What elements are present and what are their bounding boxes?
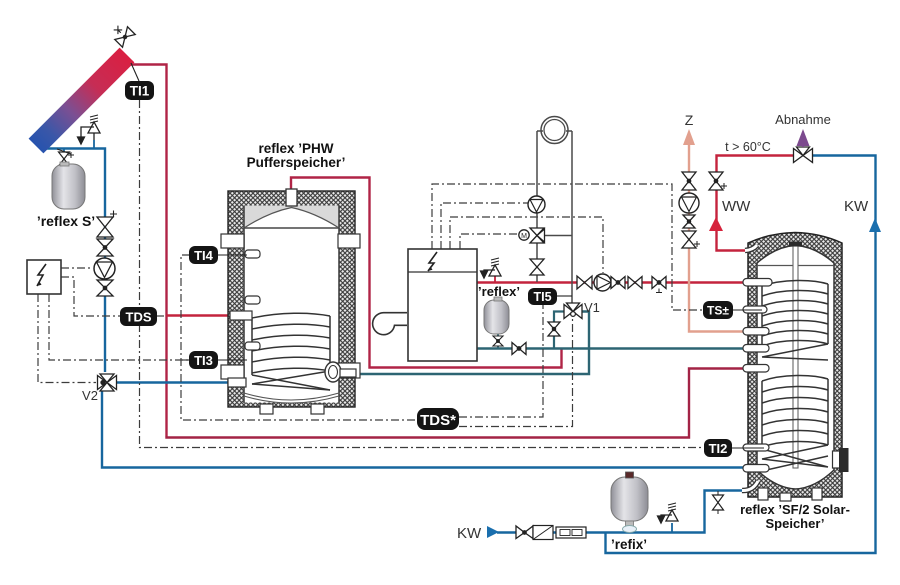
buffer tank top stub <box>286 189 297 206</box>
wire: reflex S vessel stub <box>63 149 65 153</box>
reflex expansion vessel at boiler <box>484 297 509 346</box>
wire: TI1 sensor dash line down and right to TI2 <box>140 100 706 448</box>
solar collector <box>29 21 139 153</box>
valve on WW riser <box>709 172 727 190</box>
label TI3 <box>189 351 218 369</box>
svg-text:TI3: TI3 <box>194 353 213 368</box>
TI5 connector <box>556 295 572 297</box>
wire: TDS* to TI5 dash <box>459 305 543 417</box>
TI3 connector <box>218 359 247 361</box>
wire: TI3 connector to bus <box>181 359 190 361</box>
valve with stem <box>652 277 659 289</box>
valve on Z line lower <box>682 231 700 248</box>
wire: boiler safety valve stub <box>494 276 496 282</box>
reflex S expansion vessel <box>52 162 85 209</box>
valve on V1 left branch <box>548 322 560 336</box>
drain valve under tank inlet <box>713 491 724 514</box>
valve with cap <box>97 217 113 227</box>
wire: heating return riser <box>571 131 573 304</box>
buffer coil <box>252 313 330 390</box>
svg-text:Z: Z <box>685 112 694 128</box>
solar tank lower coil <box>762 375 828 471</box>
KW inlet valve <box>516 526 533 539</box>
valve <box>628 277 635 289</box>
buffer bottom right flange oval <box>325 362 341 382</box>
svg-text:Abnahme: Abnahme <box>775 112 831 127</box>
svg-text:t > 60°C: t > 60°C <box>725 140 771 154</box>
wire: solar hot bottom bus to solar tank lower coil <box>165 369 747 438</box>
wire: V2 bottom to solar tank lower coil return <box>102 391 747 468</box>
valve <box>577 276 585 289</box>
wire: Z circulation line <box>689 143 747 332</box>
wire: boiler bus to mixing valve motor <box>460 234 518 249</box>
svg-text:V1: V1 <box>584 300 600 315</box>
Abnahme arrow purple <box>802 140 804 147</box>
WW flow arrow <box>709 217 723 231</box>
solar tank upper coil <box>762 280 828 360</box>
wire: controller to pump dash <box>61 267 92 269</box>
wire: reflex vessel stub to return line <box>497 334 499 348</box>
mixing valve arm <box>543 235 572 237</box>
buffer feet <box>260 404 273 414</box>
wire: mixed water to KW riser top <box>606 156 876 554</box>
buffer blue inlet stub <box>228 378 246 387</box>
svg-text:TI2: TI2 <box>709 441 728 456</box>
pump P3 <box>594 274 611 291</box>
KW riser arrow <box>869 218 881 232</box>
wire: boiler bus to TS sensor <box>432 184 703 310</box>
valve below solar pump <box>97 280 113 296</box>
solar tank center pipe <box>793 246 798 468</box>
boiler U1 <box>373 249 477 361</box>
thermostatic mixing valve at top <box>794 147 813 163</box>
svg-text:’reflex’: ’reflex’ <box>478 284 520 299</box>
wire: refix vessel stub <box>629 524 631 532</box>
valve on boiler return line <box>512 343 526 355</box>
wire: solar hot pipe from collector down to buses <box>130 65 167 437</box>
svg-text:reflex ’PHW: reflex ’PHW <box>258 141 333 156</box>
V1 three-way valve <box>564 303 582 319</box>
solar tank WW stub elbow <box>745 245 757 251</box>
wire: buffer bottom flange to V1 right port <box>349 312 589 375</box>
svg-text:KW: KW <box>457 525 482 542</box>
wire: controller to TDS sensor dash <box>61 277 121 316</box>
buffer flange lugs <box>221 234 244 248</box>
svg-text:TDS*: TDS* <box>420 412 456 429</box>
wire: boiler bus to loading pump <box>450 217 603 273</box>
wire: refix safety valve stub <box>671 523 673 532</box>
check valve on Z line <box>683 215 695 228</box>
wire: collector cold return pipe down to pump column <box>41 149 105 373</box>
wire: V1 left port branch with valve into return line <box>554 312 564 349</box>
sensor connector lines <box>218 255 764 448</box>
wire: TDS* to V1 dash <box>459 319 573 427</box>
sensor line to TI1 <box>131 63 139 81</box>
reflex S vessel connection valve <box>57 149 74 166</box>
wire: heating supply riser <box>536 131 538 282</box>
V2 three-way valve <box>98 374 117 391</box>
Z circulation arrow <box>683 129 695 145</box>
solar pump P1 <box>94 258 115 279</box>
svg-text:V2: V2 <box>82 388 98 403</box>
wire: controller to V2 dash <box>38 294 96 383</box>
collector air vent valve <box>109 21 135 47</box>
label TI1 <box>125 81 154 100</box>
solar tank reflex SF/2 Solar-Speicher <box>742 233 849 502</box>
svg-text:KW: KW <box>844 198 869 215</box>
wire: boiler return teal line to solar tank upper coil bottom <box>477 347 747 349</box>
safety valve group at collector return <box>78 115 101 144</box>
svg-text:TI1: TI1 <box>130 84 150 99</box>
wire: boiler hot supply line to solar tank upper coil <box>477 281 747 283</box>
heating pump P2 <box>528 196 545 213</box>
TI4 connector <box>218 254 247 256</box>
label TI5 <box>528 288 557 305</box>
wire: TDS to solar pipe connector dash <box>156 315 166 317</box>
controller box <box>27 260 61 294</box>
wire: TI4 TI3 sensor bus down to TDS* <box>181 255 418 420</box>
motor mixing valve M <box>519 228 545 243</box>
circulation pump P4 <box>679 193 699 213</box>
refix safety valve group <box>658 503 679 523</box>
svg-text:WW: WW <box>722 198 751 215</box>
loading pump group on boiler supply <box>577 274 666 293</box>
svg-text:TI4: TI4 <box>194 248 214 263</box>
wire: KW inlet line to solar tank bottom <box>497 491 744 533</box>
svg-text:TS±: TS± <box>707 304 729 318</box>
label TS plusminus <box>703 301 733 319</box>
solar tank feet <box>758 488 768 500</box>
svg-text:TDS: TDS <box>126 310 152 325</box>
svg-text:M: M <box>521 233 527 240</box>
label TI2 <box>704 439 732 457</box>
wire: buffer tank top red pipe around tank to under boiler <box>291 178 562 368</box>
boiler safety valve group <box>481 258 502 278</box>
KW inlet arrow <box>487 526 499 538</box>
KW meter <box>556 527 586 538</box>
TS connector <box>732 309 762 311</box>
buffer tank reflex PHW Pufferspeicher <box>221 189 360 414</box>
wire: WW hot water riser <box>717 156 795 251</box>
wire: V2 to buffer tank bottom <box>116 381 230 383</box>
svg-text:Speicher’: Speicher’ <box>765 516 824 531</box>
solar tank connection stub pipes <box>743 279 772 473</box>
svg-text:Pufferspeicher’: Pufferspeicher’ <box>247 155 346 170</box>
svg-text:reflex ’SF/2 Solar-: reflex ’SF/2 Solar- <box>740 502 850 517</box>
wire: safety valve stub on collector return <box>93 140 95 148</box>
heating circuit risers <box>537 117 572 305</box>
boiler lightning symbol <box>428 252 437 271</box>
label TI4 <box>189 246 218 264</box>
KW filter box <box>533 526 586 540</box>
label TDS* <box>417 408 459 430</box>
valve <box>97 239 113 248</box>
solar tank KW bottom elbow <box>742 481 758 491</box>
svg-text:TI5: TI5 <box>533 290 551 304</box>
radiator circle <box>541 117 568 144</box>
refix expansion vessel <box>611 472 648 533</box>
wire: boiler bus to heating pump <box>441 203 528 249</box>
boiler flue curl <box>373 313 407 335</box>
svg-text:’refix’: ’refix’ <box>611 537 647 552</box>
solar tank right flange <box>833 451 841 468</box>
valve on Z line <box>682 172 696 190</box>
buffer side stubs <box>245 250 260 258</box>
valve column above solar pump <box>97 211 117 257</box>
valve <box>611 277 618 289</box>
svg-text:’reflex S’: ’reflex S’ <box>37 213 95 229</box>
TI2 connector <box>731 447 764 449</box>
buffer red inlet stub <box>230 311 252 320</box>
wire: solar hot branch into buffer coil <box>167 314 234 316</box>
label TDS <box>120 307 157 326</box>
wire: controller to TI3 dash <box>49 294 190 360</box>
valve below mixing valve <box>530 259 544 275</box>
